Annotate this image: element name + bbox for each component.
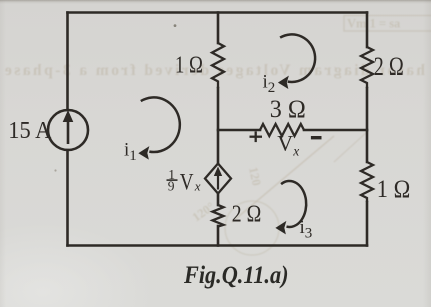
mesh current i1 arrow <box>141 97 180 152</box>
svg-text:1 Ω: 1 Ω <box>377 176 411 203</box>
wire left bottom segment <box>66 150 69 246</box>
mesh current i2 arrow <box>280 34 315 82</box>
svg-text:2 Ω: 2 Ω <box>232 201 261 228</box>
wire bottom <box>68 244 368 247</box>
wire left top segment <box>66 13 69 111</box>
polarity plus <box>250 131 263 142</box>
resistor 1 ohm (right lower branch) <box>361 162 373 202</box>
svg-text:2 Ω: 2 Ω <box>374 52 404 81</box>
wire right middle segment <box>366 88 369 162</box>
mesh current i3 arrow <box>281 181 306 227</box>
dependent source arrow <box>214 167 222 190</box>
svg-text:15 A: 15 A <box>8 117 51 144</box>
svg-text:9: 9 <box>168 179 175 194</box>
svg-text:Vm 1 = sa: Vm 1 = sa <box>347 17 401 31</box>
wire top <box>68 11 368 14</box>
svg-text:120: 120 <box>246 166 264 187</box>
wire middle horizontal right part <box>304 129 367 132</box>
wire right top segment <box>366 13 369 48</box>
value (1/9)Vx <box>167 167 201 196</box>
resistor 2 ohm (bottom middle branch) <box>213 205 224 227</box>
svg-text:i3: i3 <box>300 217 313 242</box>
svg-text:1 Ω: 1 Ω <box>175 52 203 79</box>
current source arrow <box>63 110 74 144</box>
svg-text:3 Ω: 3 Ω <box>270 96 306 123</box>
resistor 1 ohm (top middle branch) <box>212 43 224 88</box>
wire middle vertical mid segment <box>217 88 220 164</box>
wire middle horizontal left part <box>218 129 260 132</box>
dependent current source (1/9)Vx diamond <box>205 164 231 194</box>
polarity minus <box>311 136 322 139</box>
wire middle vertical below diamond <box>217 194 220 206</box>
wire middle vertical top lead <box>217 13 220 44</box>
svg-text:x: x <box>194 179 201 194</box>
svg-text:Fig.Q.11.a): Fig.Q.11.a) <box>183 262 288 289</box>
resistor 3 ohm (middle horizontal branch) <box>260 124 304 136</box>
wire middle vertical bottom lead <box>217 226 220 246</box>
svg-text:i1: i1 <box>124 140 137 165</box>
svg-text:V: V <box>180 170 194 196</box>
resistor 2 ohm (top right branch) <box>361 47 373 88</box>
wire right bottom segment <box>366 202 369 246</box>
current source 15A <box>48 110 88 150</box>
